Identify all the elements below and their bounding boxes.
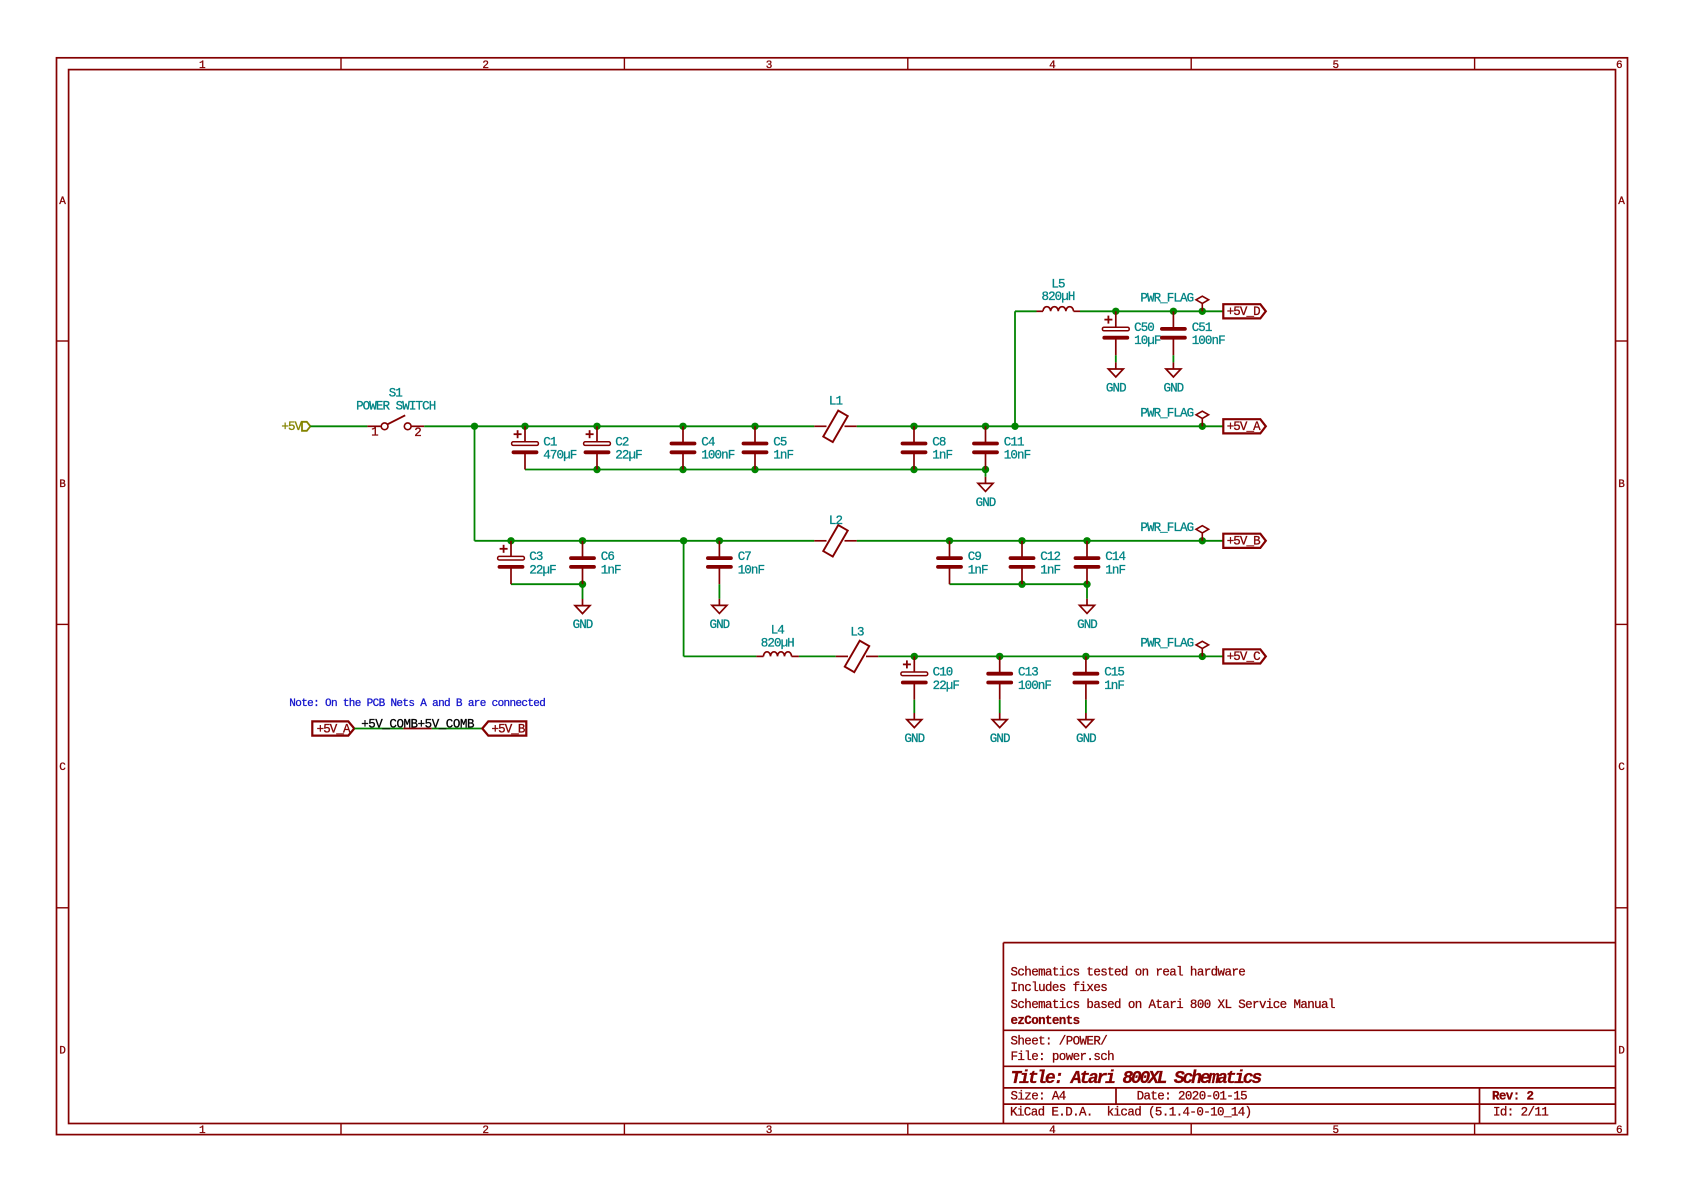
- inductor L1 body: [823, 411, 848, 442]
- svg-text:C5: C5: [773, 435, 787, 449]
- power flag PWR_FLAG: [1140, 521, 1208, 541]
- svg-text:3: 3: [766, 60, 772, 72]
- svg-text:100nF: 100nF: [1192, 334, 1225, 348]
- wire row A capacitor ground bus: [525, 469, 986, 471]
- svg-text:2: 2: [414, 426, 421, 440]
- junction C2 top: [593, 423, 600, 430]
- svg-text:L1: L1: [829, 395, 843, 409]
- svg-text:GND: GND: [976, 496, 996, 510]
- svg-text:B: B: [1618, 479, 1625, 491]
- svg-text:4: 4: [1049, 60, 1056, 72]
- svg-text:3: 3: [766, 1125, 772, 1137]
- junction C4 top: [679, 423, 686, 430]
- junction C8 bottom: [910, 466, 917, 473]
- svg-text:1nF: 1nF: [773, 449, 793, 463]
- svg-text:PWR_FLAG: PWR_FLAG: [1140, 637, 1193, 651]
- svg-text:1: 1: [371, 426, 378, 440]
- svg-text:A: A: [59, 196, 66, 208]
- junction C9 top: [946, 537, 953, 544]
- junction row D riser: [1011, 423, 1018, 430]
- svg-text:D: D: [59, 1046, 66, 1058]
- junction PWR_FLAG B: [1199, 537, 1206, 544]
- capacitor C10: [901, 656, 928, 699]
- junction C51 top: [1170, 308, 1177, 315]
- junction C6 top: [579, 537, 586, 544]
- svg-text:Rev: 2: Rev: 2: [1492, 1089, 1534, 1103]
- svg-text:GND: GND: [1106, 381, 1126, 395]
- junction C2 bottom: [593, 466, 600, 473]
- wire +5V to S1 pin 1: [310, 425, 367, 427]
- junction C14 bottom: [1083, 581, 1090, 588]
- junction C1 top: [521, 423, 528, 430]
- svg-text:GND: GND: [1077, 618, 1097, 632]
- svg-text:100nF: 100nF: [1018, 679, 1051, 693]
- capacitor C4: [672, 426, 695, 469]
- svg-text:C4: C4: [701, 435, 715, 449]
- capacitor C51: [1162, 311, 1185, 355]
- svg-text:C6: C6: [601, 550, 615, 564]
- svg-text:2: 2: [482, 1125, 488, 1137]
- inductor L2 body: [823, 525, 848, 556]
- svg-text:PWR_FLAG: PWR_FLAG: [1140, 291, 1193, 305]
- hierarchical label +5V_B: [1223, 534, 1266, 549]
- svg-text:ezContents: ezContents: [1011, 1014, 1080, 1028]
- svg-text:GND: GND: [990, 732, 1010, 746]
- power port +5V: [281, 420, 310, 434]
- svg-text:C12: C12: [1040, 550, 1060, 564]
- svg-text:C8: C8: [932, 435, 946, 449]
- svg-text:C10: C10: [933, 666, 953, 680]
- svg-text:GND: GND: [709, 618, 729, 632]
- svg-text:C3: C3: [529, 550, 543, 564]
- svg-text:GND: GND: [904, 732, 924, 746]
- capacitor C8: [903, 426, 926, 469]
- junction C50 top: [1112, 308, 1119, 315]
- junction row C riser: [680, 537, 687, 544]
- svg-text:820µH: 820µH: [1041, 290, 1074, 304]
- junction C6 bottom: [579, 581, 586, 588]
- svg-text:1nF: 1nF: [932, 449, 952, 463]
- power flag PWR_FLAG: [1140, 291, 1208, 311]
- svg-text:Date: 2020-01-15: Date: 2020-01-15: [1137, 1089, 1248, 1103]
- svg-text:File: power.sch: File: power.sch: [1011, 1050, 1115, 1064]
- junction C5 top: [751, 423, 758, 430]
- junction C13 top: [996, 653, 1003, 660]
- svg-text:6: 6: [1616, 60, 1622, 72]
- power flag PWR_FLAG: [1140, 406, 1208, 426]
- capacitor C50: [1102, 311, 1129, 355]
- junction C15 top: [1082, 653, 1089, 660]
- svg-text:C11: C11: [1004, 435, 1024, 449]
- svg-text:C9: C9: [968, 550, 982, 564]
- svg-text:B: B: [59, 479, 66, 491]
- svg-text:470µF: 470µF: [543, 449, 576, 463]
- svg-text:+5V_C: +5V_C: [1227, 650, 1260, 664]
- junction PWR_FLAG A: [1199, 423, 1206, 430]
- capacitor C2: [584, 426, 611, 469]
- capacitor C7: [708, 541, 731, 584]
- svg-text:C: C: [59, 762, 66, 774]
- svg-text:Id: 2/11: Id: 2/11: [1493, 1105, 1548, 1119]
- ground GND (under C7): [709, 584, 729, 632]
- junction C3 top: [507, 537, 514, 544]
- svg-text:GND: GND: [1076, 732, 1096, 746]
- ground GND (under C10): [904, 700, 924, 746]
- capacitor C3: [498, 541, 525, 584]
- ground GND (under C50): [1106, 355, 1126, 395]
- svg-text:1: 1: [199, 60, 206, 72]
- svg-text:L3: L3: [850, 626, 864, 640]
- inductor L4 body: [764, 652, 792, 657]
- power flag PWR_FLAG: [1140, 637, 1208, 657]
- capacitor C9: [938, 541, 961, 584]
- svg-text:C7: C7: [738, 550, 752, 564]
- svg-text:+5V: +5V: [281, 420, 302, 434]
- svg-text:+5V_A: +5V_A: [317, 722, 351, 736]
- svg-text:1nF: 1nF: [1104, 679, 1124, 693]
- junction S1 out / row B riser: [471, 423, 478, 430]
- svg-text:L2: L2: [829, 514, 843, 528]
- capacitor C11: [974, 426, 997, 469]
- hierarchical label +5V_C: [1223, 649, 1266, 664]
- wire L2 to +5V_B label: [857, 540, 1224, 542]
- svg-text:5: 5: [1333, 60, 1339, 72]
- wire row B rail left of L2: [475, 540, 815, 542]
- junction C11 top: [982, 423, 989, 430]
- svg-text:POWER SWITCH: POWER SWITCH: [356, 399, 436, 413]
- svg-text:PWR_FLAG: PWR_FLAG: [1140, 521, 1193, 535]
- svg-text:Note: On the PCB Nets A and B: Note: On the PCB Nets A and B are connec…: [289, 698, 545, 710]
- svg-text:C14: C14: [1105, 550, 1125, 564]
- hierarchical label +5V_A (note): [312, 721, 354, 736]
- wire L1 to +5V_A label: [857, 425, 1224, 427]
- junction C8 top: [910, 423, 917, 430]
- capacitor C6: [571, 541, 594, 584]
- ground GND (under C14): [1077, 584, 1097, 632]
- svg-text:KiCad E.D.A. kicad (5.1.4-0-1: KiCad E.D.A. kicad (5.1.4-0-10_14): [1010, 1105, 1252, 1119]
- svg-text:Schematics based on Atari 800: Schematics based on Atari 800 XL Service…: [1011, 998, 1335, 1012]
- inductor L2 (pins): [814, 540, 856, 542]
- svg-text:1: 1: [199, 1125, 206, 1137]
- wire segment (+5V_COMB overlap): [403, 728, 431, 730]
- inductor L5 (pins): [1037, 310, 1081, 312]
- svg-text:10nF: 10nF: [1004, 449, 1031, 463]
- junction C12 bottom: [1018, 581, 1025, 588]
- svg-text:1nF: 1nF: [601, 563, 621, 577]
- svg-text:820µH: 820µH: [761, 636, 794, 650]
- capacitor C1: [512, 426, 539, 469]
- inductor L3 (pins): [836, 655, 878, 657]
- junction C10 top: [911, 653, 918, 660]
- svg-text:2: 2: [482, 60, 488, 72]
- svg-text:1nF: 1nF: [1040, 563, 1060, 577]
- svg-text:Sheet: /POWER/: Sheet: /POWER/: [1011, 1035, 1108, 1049]
- svg-text:+5V_D: +5V_D: [1227, 305, 1260, 319]
- svg-text:C15: C15: [1104, 666, 1124, 680]
- wire L4 to L3: [799, 655, 836, 657]
- svg-text:C2: C2: [615, 435, 629, 449]
- inductor L3 body: [845, 641, 870, 672]
- svg-text:GND: GND: [573, 618, 593, 632]
- capacitor C13: [988, 656, 1011, 699]
- wire riser row B to row C: [683, 541, 685, 657]
- svg-text:22µF: 22µF: [933, 679, 960, 693]
- inductor L5 body: [1043, 307, 1074, 312]
- svg-text:Schematics tested on real hard: Schematics tested on real hardware: [1011, 966, 1246, 980]
- svg-text:Includes fixes: Includes fixes: [1011, 981, 1108, 995]
- switch S1 body: [367, 415, 424, 429]
- svg-text:100nF: 100nF: [701, 449, 734, 463]
- ground GND (row A bus, under C11): [976, 470, 996, 510]
- svg-text:+5V_A: +5V_A: [1227, 420, 1261, 434]
- ground GND (under C15): [1076, 700, 1096, 746]
- svg-text:D: D: [1618, 1046, 1625, 1058]
- junction PWR_FLAG D: [1199, 308, 1206, 315]
- hierarchical label +5V_D: [1223, 304, 1266, 319]
- ground GND (under C13): [990, 700, 1010, 746]
- svg-text:S1: S1: [389, 386, 403, 400]
- inductor L1 (pins): [814, 425, 856, 427]
- svg-text:C13: C13: [1018, 666, 1038, 680]
- hierarchical label +5V_B (note): [482, 721, 526, 736]
- capacitor C14: [1076, 541, 1099, 584]
- junction C5 bottom: [751, 466, 758, 473]
- svg-text:C51: C51: [1192, 321, 1212, 335]
- svg-text:Title: Atari 800XL Schematics: Title: Atari 800XL Schematics: [1011, 1069, 1262, 1089]
- ground GND (under C51): [1163, 355, 1183, 395]
- junction C11 bottom: [982, 466, 989, 473]
- wire C3 to C6 ground link: [511, 583, 583, 585]
- svg-text:C1: C1: [543, 435, 557, 449]
- hierarchical label +5V_A: [1223, 419, 1266, 434]
- svg-text:22µF: 22µF: [529, 563, 556, 577]
- svg-text:GND: GND: [1163, 381, 1183, 395]
- svg-text:22µF: 22µF: [615, 449, 642, 463]
- wire L3 to +5V_C label: [878, 655, 1223, 657]
- svg-text:C50: C50: [1134, 321, 1154, 335]
- svg-text:10nF: 10nF: [738, 563, 765, 577]
- svg-text:C: C: [1618, 762, 1625, 774]
- svg-text:PWR_FLAG: PWR_FLAG: [1140, 406, 1193, 420]
- inductor L4 (pins): [756, 655, 799, 657]
- svg-text:4: 4: [1049, 1125, 1056, 1137]
- svg-text:+5V_B: +5V_B: [492, 722, 526, 736]
- svg-text:+5V_COMB+5V_COMB: +5V_COMB+5V_COMB: [361, 717, 475, 731]
- junction C7 top: [716, 537, 723, 544]
- svg-text:10µF: 10µF: [1134, 334, 1161, 348]
- junction C4 bottom: [679, 466, 686, 473]
- capacitor C12: [1011, 541, 1034, 584]
- capacitor C5: [744, 426, 767, 469]
- capacitor C15: [1074, 656, 1097, 699]
- wire riser row A to row B: [474, 426, 476, 541]
- svg-text:1nF: 1nF: [1105, 563, 1125, 577]
- junction PWR_FLAG C: [1199, 653, 1206, 660]
- svg-text:Size: A4: Size: A4: [1011, 1089, 1066, 1103]
- wire riser row A to L5: [1014, 311, 1016, 426]
- wire +5V_COMB to +5V_B: [432, 728, 483, 730]
- junction C12 top: [1018, 537, 1025, 544]
- junction C14 top: [1083, 537, 1090, 544]
- ground GND (under C6): [573, 584, 593, 632]
- svg-text:5: 5: [1333, 1125, 1339, 1137]
- wire row C rail riser to L4: [684, 655, 757, 657]
- svg-text:A: A: [1618, 196, 1625, 208]
- wire C9-C12-C14 ground bus: [950, 583, 1088, 585]
- wire L5 to +5V_D label: [1080, 310, 1223, 312]
- svg-text:1nF: 1nF: [968, 563, 988, 577]
- svg-text:+5V_B: +5V_B: [1227, 534, 1261, 548]
- wire S1 pin 2 to L1 (net +5V, row A): [424, 425, 814, 427]
- svg-text:6: 6: [1616, 1125, 1622, 1137]
- wire +5V_A to +5V_COMB: [354, 728, 403, 730]
